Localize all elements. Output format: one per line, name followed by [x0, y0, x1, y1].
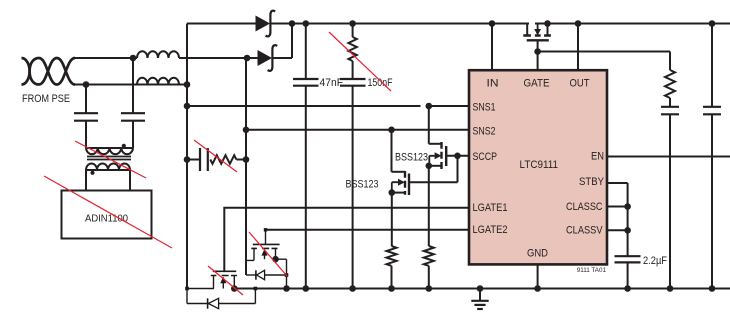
wire top rail right of pass FET	[535, 23, 730, 25]
capacitor C5 top plate	[703, 106, 721, 108]
svg-text:CLASSC: CLASSC	[566, 201, 603, 213]
wire 2.2uF to ground rail	[627, 262, 629, 288]
wire M2 source to D3 anode column	[276, 259, 287, 275]
capacitor C3 right plate	[207, 148, 209, 171]
transistor Q1 drain riser to SNS1	[428, 106, 430, 144]
svg-text:IN: IN	[487, 77, 499, 89]
transformer T1 primary phasing dot	[122, 144, 126, 148]
wire Q2 source column	[391, 193, 393, 246]
wire CLASSC line	[607, 206, 628, 208]
junction bottom pair / C1 column	[83, 81, 90, 88]
wire D3 cathode from middle column	[246, 274, 256, 276]
wire 47nF column lower	[305, 86, 307, 289]
junction M1 gate / GATE wire	[534, 48, 541, 55]
wire T1 secondary left to ADIN1100	[85, 170, 87, 191]
svg-text:SNS2: SNS2	[473, 126, 496, 138]
wire R2 to middle column	[236, 159, 246, 161]
resistor R4 on Q2 source column	[387, 246, 397, 266]
transistor M1 gate lead	[537, 40, 539, 51]
transistor Q1 body arrow tail	[429, 156, 435, 166]
junction rail / right cap column	[709, 285, 716, 292]
transformer T1 secondary phasing dot	[90, 171, 94, 175]
transistor M1 gate bar	[527, 39, 549, 41]
resistor R1 on 150nF column	[348, 37, 356, 61]
wire EN line	[607, 156, 730, 158]
corner LGATE2 / M2 gate	[264, 228, 267, 231]
junction M2 source/body	[272, 256, 279, 263]
transformer T1 core line 2	[87, 159, 131, 161]
wire C2 column upper	[132, 58, 134, 113]
junction rail / 2.2uF	[624, 285, 631, 292]
svg-text:GATE: GATE	[524, 77, 550, 89]
svg-text:BSS123: BSS123	[346, 178, 379, 190]
junction middle column / SNS2	[243, 127, 250, 134]
wire T1 secondary right to ADIN1100	[129, 170, 131, 191]
transistor M3 body arrow shaft	[222, 283, 224, 289]
junction top pair / D2 anode / middle column	[244, 55, 251, 62]
transistor M2 gate bar	[253, 243, 280, 245]
Schottky diode D1 triangle	[256, 16, 271, 32]
svg-text:STBY: STBY	[579, 176, 605, 188]
transistor M2 source stub	[275, 248, 277, 259]
capacitor 47nF bottom plate	[293, 85, 319, 87]
capacitor C2 bottom plate	[121, 120, 145, 122]
junction top pair / C2 column	[130, 55, 137, 62]
junction rail / R3	[426, 285, 433, 292]
junction Q1 source/body	[426, 163, 433, 170]
junction rail / C4 column	[667, 285, 674, 292]
svg-text:LGATE1: LGATE1	[473, 202, 508, 214]
svg-text:150nF: 150nF	[368, 77, 393, 89]
wire C1 to transformer primary left	[85, 121, 87, 148]
red strikethrough transformer T1	[75, 141, 146, 178]
transistor Q2 source lead	[392, 192, 405, 194]
svg-text:FROM PSE: FROM PSE	[22, 93, 70, 105]
resistor R5 gate column	[665, 70, 675, 98]
transistor Q2 drain lead	[392, 171, 406, 173]
wire D2 anode	[247, 57, 258, 59]
wire D2 riser to top rail	[291, 24, 293, 59]
junction bottom pair / left column	[184, 81, 191, 88]
transistor M3 body arrow head	[220, 277, 226, 284]
junction SCCP / Q2 gate	[454, 153, 461, 160]
junction rail / D3 column	[283, 285, 290, 292]
transistor Q1 drain lead	[429, 143, 442, 145]
wire gate RC line	[538, 51, 670, 53]
svg-text:2.2µF: 2.2µF	[643, 255, 667, 267]
transistor Q2 channel segments	[404, 171, 406, 195]
resistor R3 on Q1 source column	[424, 246, 434, 266]
Schottky diode D1 cathode	[266, 11, 276, 37]
wire OUT pin riser	[577, 24, 579, 71]
twisted pair cable strand 1	[30, 58, 75, 85]
diode D4 triangle	[208, 298, 218, 308]
wire top rail left of pass FET	[271, 23, 529, 25]
wire RC to cap plate	[187, 159, 200, 161]
svg-text:OUT: OUT	[570, 77, 590, 89]
capacitor C2 top plate	[121, 112, 145, 114]
svg-text:GND: GND	[527, 248, 548, 260]
capacitor C4 top plate	[661, 106, 679, 108]
wire SCCP line	[446, 155, 469, 157]
wire left column x187	[186, 24, 188, 289]
transistor M1 drain stub	[526, 24, 528, 36]
capacitor 2.2uF top plate	[615, 255, 641, 257]
wire GND pin to rail	[537, 264, 539, 288]
svg-text:9111 TA01: 9111 TA01	[577, 267, 607, 274]
junction rail / 150nF column	[349, 285, 356, 292]
wire SNS1 line	[187, 105, 469, 107]
junction STBY column / CLASSC	[624, 203, 631, 210]
wire D4 anode to rail	[219, 289, 256, 304]
transistor Q2 gate lead	[409, 156, 458, 182]
wire gate resistor stub	[669, 52, 671, 71]
junction SNS2 / Q2 drain	[388, 127, 395, 134]
wire 150nF column lower	[352, 86, 354, 289]
junction rail / 47nF column	[303, 285, 310, 292]
transistor M2 gate lead	[265, 230, 267, 245]
red strikethrough R1/150nF	[329, 32, 391, 91]
transistor M1 channel segments	[523, 34, 551, 36]
Schottky diode D2 cathode	[268, 45, 278, 71]
capacitor C1 top plate	[74, 112, 98, 114]
wire D2 cathode to riser	[273, 57, 292, 59]
junction rail / M3 source	[231, 285, 238, 292]
junction D2 riser / top rail	[289, 20, 296, 27]
wire top pair from cable to choke	[75, 57, 137, 59]
junction left column / SNS1	[184, 103, 191, 110]
wire SNS2 line	[246, 129, 469, 131]
wire GATE pin riser	[537, 52, 539, 71]
junction rail / ground symbol	[477, 285, 484, 292]
svg-text:LTC9111: LTC9111	[520, 159, 559, 171]
junction top rail / 150nF column	[349, 20, 356, 27]
ground symbol bar 1	[471, 300, 488, 302]
svg-text:LGATE2: LGATE2	[473, 224, 508, 236]
wire ground rail	[234, 288, 730, 290]
wire top pair from choke to node	[179, 57, 247, 59]
wire D3 anode to column	[265, 274, 287, 276]
capacitor C3 left plate	[199, 148, 201, 171]
wire M3 drain net rail segment	[187, 288, 214, 290]
transistor Q2 body arrow head	[398, 179, 405, 186]
ground symbol bar 2	[474, 304, 485, 306]
ADIN1100 PHY block	[62, 191, 152, 239]
junction top rail / M1 source	[544, 20, 551, 27]
transistor M2 body arrow head	[261, 249, 267, 256]
wire D4 loop left	[187, 289, 208, 304]
common-mode choke winding L1 top	[137, 51, 179, 58]
transistor M1 body arrow head	[534, 29, 541, 36]
svg-text:ADIN1100: ADIN1100	[85, 213, 128, 225]
ground symbol bar 3	[477, 308, 483, 310]
wire right cap column upper	[711, 24, 713, 107]
junction top rail / OUT riser	[575, 20, 582, 27]
IC U1 LTC9111 body	[469, 70, 607, 264]
transistor M1 source stub	[547, 24, 549, 36]
resistor R2 horizontal	[210, 155, 236, 164]
transformer T1 secondary winding	[86, 164, 130, 171]
transistor Q1 gate bar	[445, 146, 447, 166]
capacitor 150nF top plate	[340, 78, 366, 80]
wire R3 to ground rail	[428, 266, 430, 289]
svg-text:SNS1: SNS1	[473, 102, 496, 114]
wire LGATE1 line	[224, 208, 469, 271]
junction RC / middle column	[243, 156, 250, 163]
twisted pair cable left end cap	[22, 58, 30, 85]
transistor Q1 channel segments	[440, 142, 442, 169]
transistor M2 body arrow shaft	[264, 255, 266, 259]
svg-text:EN: EN	[591, 151, 604, 163]
junction left column / RC	[184, 156, 191, 163]
Schottky diode D2 triangle	[258, 50, 273, 66]
diode D4 cathode bar	[207, 298, 209, 308]
wire 150nF column stub	[352, 24, 354, 38]
capacitor C4 bottom plate	[661, 113, 679, 115]
transistor Q2 drain riser to SNS2	[391, 130, 393, 172]
junction D3 anode / M2 source / rail column	[285, 273, 289, 277]
diode D3 triangle	[257, 270, 265, 279]
wire C1 column upper	[85, 85, 87, 114]
transistor M3 drain stub	[213, 276, 215, 289]
twisted pair cable strand 2	[30, 58, 75, 85]
red strikethrough M3	[208, 266, 243, 295]
capacitor C1 bottom plate	[74, 120, 98, 122]
transistor M3 gate bar	[213, 270, 236, 272]
transformer T1 primary winding	[86, 148, 133, 154]
wire IN pin riser	[491, 24, 493, 71]
wire R1 to 150nF	[352, 61, 354, 79]
capacitor 150nF bottom plate	[340, 85, 366, 87]
transistor Q2 body arrow tail	[392, 182, 398, 192]
svg-text:CLASSV: CLASSV	[566, 225, 603, 237]
wire right cap column lower	[711, 114, 713, 288]
junction Q2 source/body	[389, 189, 396, 196]
wire Q1 source column	[428, 166, 430, 246]
transistor M2 drain stub	[246, 248, 254, 260]
transistor M1 body arrow shaft	[537, 24, 539, 30]
diode D3 cathode bar	[255, 270, 257, 279]
common-mode choke winding L2 bottom	[137, 78, 179, 85]
wire STBY line	[607, 183, 628, 256]
transistor M2 channel segments	[251, 247, 277, 249]
junction top rail / right cap column	[709, 20, 716, 27]
junction rail / R4	[388, 285, 395, 292]
junction rail / GND pin	[534, 285, 541, 292]
wire R4 to ground rail	[391, 266, 393, 289]
junction D4 anode / rail	[254, 287, 258, 291]
junction STBY column / CLASSV	[624, 227, 631, 234]
wire CLASSV line	[607, 229, 628, 231]
junction SNS1 / Q1 drain	[426, 103, 433, 110]
svg-text:SCCP: SCCP	[473, 151, 498, 163]
capacitor C5 bottom plate	[703, 113, 721, 115]
capacitor 47nF top plate	[293, 78, 319, 80]
wire middle column x246	[245, 58, 247, 275]
wire 47nF column upper	[305, 24, 307, 80]
svg-text:47nF: 47nF	[320, 77, 344, 89]
wire C2 to transformer primary right	[132, 121, 134, 148]
transistor Q1 body arrow head	[435, 152, 442, 159]
junction top rail / IN riser	[489, 20, 496, 27]
wire bottom pair from cable to column	[75, 84, 187, 86]
capacitor 2.2uF bottom plate	[615, 261, 641, 263]
transistor M3 source stub	[233, 276, 235, 289]
ground symbol stem	[479, 289, 481, 301]
red strikethrough RC network	[194, 140, 237, 172]
transformer T1 core line 1	[87, 156, 131, 158]
wire R5 to C4	[669, 98, 671, 107]
wire D1 anode from left column	[187, 23, 256, 25]
transistor Q1 source lead	[429, 165, 442, 167]
wire LGATE2 line	[266, 229, 470, 231]
red strikethrough ADIN1100	[44, 176, 172, 248]
wire C4 column lower	[669, 114, 671, 288]
svg-text:BSS123: BSS123	[395, 151, 428, 163]
wire D3 anode column to rail	[286, 275, 288, 289]
transistor M3 channel segments	[211, 275, 237, 277]
junction M3 drain net / D4 / left column	[185, 287, 189, 291]
red strikethrough M2/D3	[249, 232, 287, 276]
transistor Q2 gate bar	[408, 174, 410, 196]
junction top rail / 47nF column	[303, 20, 310, 27]
